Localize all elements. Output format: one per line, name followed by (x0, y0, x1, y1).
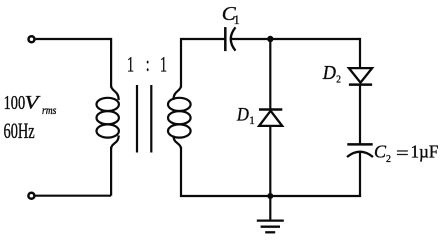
svg-text:1: 1 (249, 115, 254, 127)
wire bottom rail right segment (270, 195, 361, 197)
svg-text:1: 1 (160, 52, 167, 77)
inductor L1 primary winding hooks (111, 86, 119, 100)
svg-text:C: C (374, 142, 387, 162)
wire top-left horizontal (36, 38, 112, 40)
svg-text:D: D (236, 103, 249, 124)
wire primary vertical top (110, 38, 112, 88)
svg-text:V: V (25, 92, 41, 113)
transformer core lines (136, 85, 138, 153)
svg-text:1µF: 1µF (411, 141, 439, 162)
ground bar 2 (261, 226, 280, 228)
wire bottom-left horizontal (36, 195, 112, 197)
ground stub (269, 196, 271, 220)
wire top rail from C1 to D2 branch (231, 38, 360, 40)
svg-text:=: = (396, 144, 409, 163)
svg-text:1: 1 (127, 52, 134, 77)
diode D2 triangle (349, 68, 372, 83)
diode D1 triangle (259, 111, 282, 126)
diode D2 cathode bar (349, 83, 372, 86)
svg-text:2: 2 (336, 74, 341, 86)
capacitor C1 left plate (224, 27, 227, 51)
terminal top-left (29, 36, 35, 42)
svg-text:60Hz: 60Hz (4, 119, 35, 144)
label 1 : 1 (127, 52, 167, 78)
svg-text:2: 2 (386, 153, 391, 165)
svg-text:rms: rms (42, 104, 56, 117)
inductor L1 primary winding loops (97, 98, 119, 111)
wire D2 to C2 (359, 85, 361, 145)
wire C2 down to bottom rail (359, 152, 361, 196)
capacitor C1 right curved plate (231, 27, 236, 50)
capacitor C2 curved plate (347, 152, 373, 157)
svg-text:D: D (322, 62, 336, 84)
ground bar 3 (265, 231, 275, 233)
wire D1 branch upper (269, 39, 271, 110)
svg-text:100: 100 (4, 90, 26, 113)
junction node bottom (267, 193, 273, 199)
wire primary vertical bottom (110, 147, 112, 196)
junction node top (267, 36, 273, 42)
wire D1 branch lower (269, 126, 271, 196)
diode D1 cathode bar (259, 108, 282, 111)
inductor L2 secondary winding loops (168, 98, 191, 111)
svg-text::: : (146, 52, 150, 77)
svg-text:1: 1 (234, 13, 240, 27)
wire secondary vertical bottom (181, 147, 270, 196)
terminal bottom-left (28, 193, 34, 199)
ground bar 1 (257, 219, 284, 221)
capacitor C2 top plate (347, 143, 372, 146)
wire D2 branch top (359, 38, 361, 68)
inductor L2 secondary winding hooks (173, 86, 181, 100)
wire secondary vertical top (181, 39, 225, 88)
